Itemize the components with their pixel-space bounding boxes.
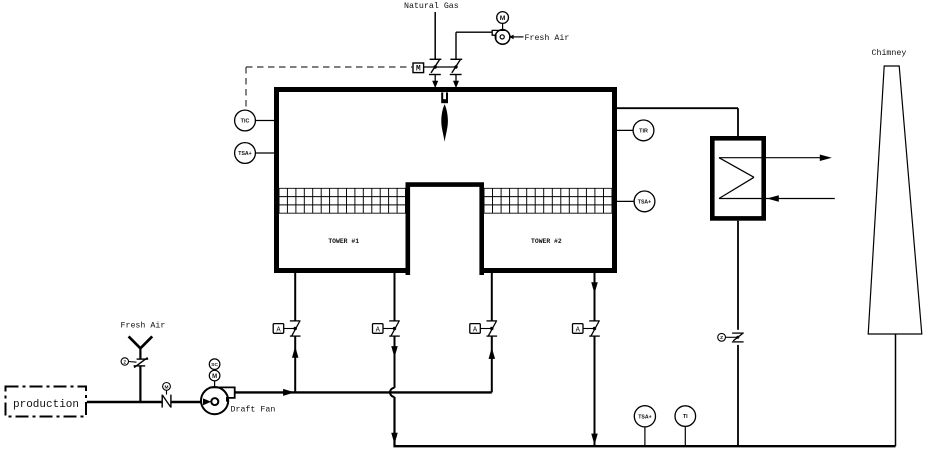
svg-text:Chimney: Chimney <box>872 48 907 58</box>
svg-text:TSA+: TSA+ <box>238 151 251 157</box>
svg-text:Fresh Air: Fresh Air <box>121 321 166 331</box>
svg-text:Fresh Air: Fresh Air <box>525 33 570 43</box>
svg-text:M: M <box>500 15 506 22</box>
svg-text:Draft Fan: Draft Fan <box>231 405 276 415</box>
svg-text:TIC: TIC <box>241 119 250 125</box>
svg-text:Z: Z <box>123 360 126 365</box>
svg-text:TSA+: TSA+ <box>638 200 651 206</box>
svg-text:A: A <box>276 326 281 334</box>
svg-text:production: production <box>13 399 79 411</box>
svg-text:Natural Gas: Natural Gas <box>404 1 459 11</box>
svg-text:SC: SC <box>211 362 218 368</box>
svg-text:M: M <box>212 374 217 380</box>
svg-text:A: A <box>473 326 478 334</box>
svg-text:A: A <box>376 326 381 334</box>
svg-text:TOWER #2: TOWER #2 <box>531 238 562 245</box>
svg-text:M: M <box>165 385 169 391</box>
svg-text:A: A <box>576 326 581 334</box>
svg-text:TOWER #1: TOWER #1 <box>328 238 359 245</box>
svg-text:TIR: TIR <box>639 129 648 135</box>
svg-text:M: M <box>416 66 421 74</box>
svg-text:TSA+: TSA+ <box>638 414 651 420</box>
svg-text:Z: Z <box>720 335 723 341</box>
svg-text:TI: TI <box>683 414 688 420</box>
